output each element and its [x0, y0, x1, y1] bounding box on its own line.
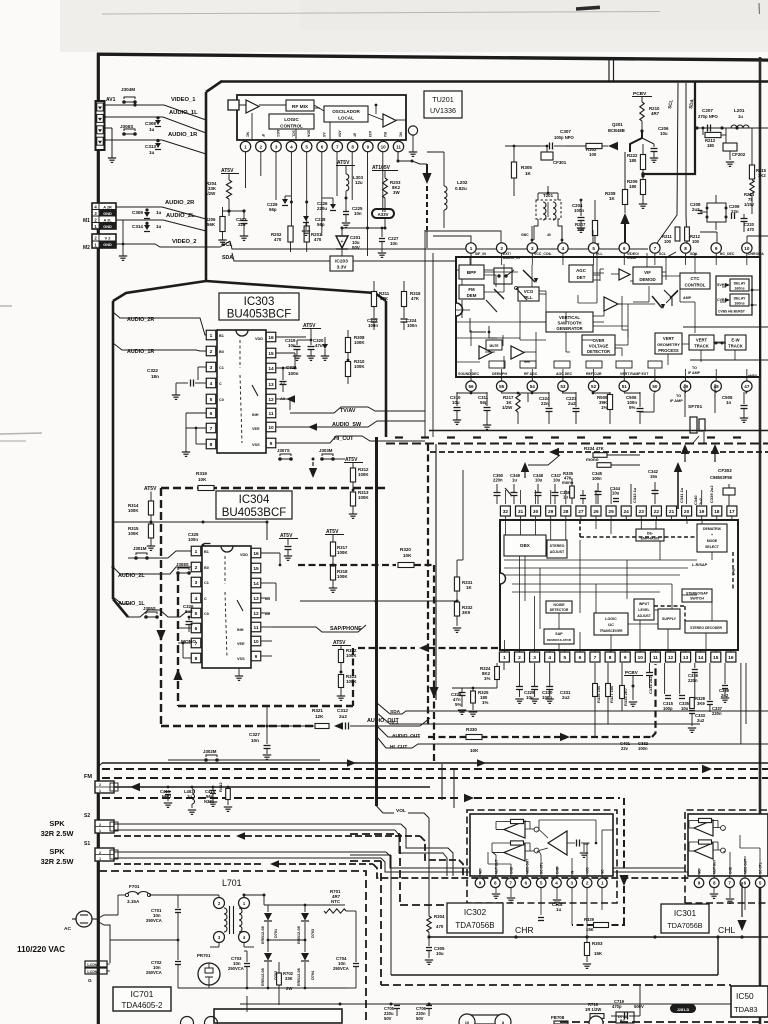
resistor R313: [349, 490, 370, 518]
svg-text:R321: R321: [312, 708, 323, 713]
svg-text:2u2: 2u2: [568, 401, 576, 406]
resistor R315: [128, 522, 155, 550]
capacitor C706: [416, 1004, 432, 1021]
wire y522 under IC304 label: [113, 521, 269, 541]
amp IC302 opamp2: [492, 841, 540, 861]
label VOL: [377, 806, 430, 818]
svg-text:Q201: Q201: [612, 122, 623, 127]
svg-text:3.15A: 3.15A: [127, 899, 140, 904]
shield border top y81: [221, 80, 768, 83]
svg-text:100K: 100K: [354, 340, 365, 345]
svg-text:VSS: VSS: [252, 443, 260, 447]
IC U201 block VIF DEMOD: [633, 267, 662, 284]
capacitor C328: [451, 688, 497, 714]
connector M2: [92, 234, 116, 248]
svg-text:15: 15: [713, 655, 719, 661]
svg-text:VERT RAMP EXT: VERT RAMP EXT: [620, 372, 649, 376]
svg-text:VEE: VEE: [252, 427, 260, 431]
power bottom wires: [187, 988, 345, 1018]
svg-text:18: 18: [714, 509, 720, 515]
capacitor C703: [228, 951, 250, 989]
svg-text:16: 16: [253, 551, 259, 557]
svg-text:100n: 100n: [188, 537, 198, 542]
svg-text:D704: D704: [311, 970, 315, 980]
svg-text:IF: IF: [261, 134, 265, 137]
bus dashed vertical x428: [427, 444, 429, 726]
arrow up pin49 feed: [681, 444, 689, 462]
supply AT5V mid: [336, 160, 355, 166]
svg-text:GND: GND: [510, 866, 514, 874]
thick feed line right: [641, 82, 695, 176]
svg-text:3: 3: [195, 580, 198, 586]
svg-text:13: 13: [683, 655, 689, 661]
svg-text:2u2: 2u2: [562, 695, 570, 700]
svg-text:R412: R412: [218, 782, 223, 792]
svg-text:R305: R305: [521, 165, 532, 170]
label J281-D: [670, 1004, 696, 1013]
svg-text:1/2W: 1/2W: [205, 191, 216, 196]
svg-text:29: 29: [548, 509, 554, 515]
resistor R412: [218, 782, 232, 812]
IC U301 block STEREO/SAP SWITCH: [682, 589, 712, 602]
IC U301 inner wires: [504, 520, 712, 652]
bus dashed R330 y737: [428, 664, 656, 741]
amp IC302 body: [470, 814, 613, 876]
svg-text:DEMODULATOR: DEMODULATOR: [547, 638, 572, 642]
svg-text:R304: R304: [434, 914, 445, 919]
bus SCL vertical: [657, 83, 678, 243]
svg-text:S2: S2: [84, 813, 90, 819]
wire AUDIO_1L: [105, 117, 207, 133]
arrow down x434: [429, 687, 438, 698]
jumper J302M: [113, 749, 320, 762]
svg-text:470: 470: [436, 924, 444, 929]
svg-text:4: 4: [195, 596, 198, 602]
bus SDA vertical: [686, 83, 695, 243]
svg-text:7: 7: [509, 881, 512, 886]
capacitor C325: [188, 522, 211, 547]
IC304 pin names: [204, 550, 271, 661]
capacitor C315: [663, 663, 674, 711]
resistor R316: [401, 281, 421, 316]
IC U201 transistor sketch: [664, 290, 692, 306]
supply AT5V: [221, 168, 239, 180]
svg-text:56: 56: [468, 384, 474, 389]
IC U201 inner wires: [456, 253, 725, 352]
label 110/220 VAC: [17, 945, 65, 954]
svg-text:TO: TO: [692, 366, 697, 370]
jumper J304M: [121, 87, 137, 104]
svg-text:1%: 1%: [484, 676, 490, 681]
svg-text:INPUT: INPUT: [639, 602, 650, 606]
svg-text:10u: 10u: [452, 400, 460, 405]
svg-text:49: 49: [683, 384, 689, 389]
svg-text:100K: 100K: [337, 550, 348, 555]
resistor R302: [566, 142, 618, 157]
svg-text:100n: 100n: [592, 476, 602, 481]
svg-text:5: 5: [592, 246, 595, 251]
arrow up pin21 wire: [674, 462, 682, 509]
svg-text:+: +: [711, 533, 713, 537]
svg-text:J305S: J305S: [143, 606, 156, 611]
svg-text:11: 11: [653, 655, 658, 661]
svg-text:C334 2u2: C334 2u2: [648, 676, 653, 694]
label box IC304: [216, 491, 292, 519]
svg-text:2u2: 2u2: [697, 718, 705, 723]
tuner AGC circle: [408, 126, 417, 156]
tuner RF MIX box: [286, 100, 314, 111]
capacitor C324: [401, 316, 418, 330]
svg-text:2u2: 2u2: [698, 497, 703, 505]
jumper J305S: [143, 606, 159, 619]
svg-text:31: 31: [518, 509, 524, 515]
speaker S2 wires: [114, 824, 453, 876]
svg-text:22: 22: [654, 509, 660, 515]
svg-text:6: 6: [210, 411, 213, 417]
svg-text:14: 14: [698, 655, 704, 661]
IC U201 body: [456, 257, 760, 377]
capacitor C340: [693, 495, 703, 505]
svg-text:INH: INH: [237, 628, 244, 632]
svg-text:52: 52: [591, 384, 597, 389]
wire SAP/PHONE: [272, 625, 366, 632]
svg-text:ERB12-08: ERB12-08: [297, 968, 301, 986]
svg-text:5%: 5%: [629, 405, 635, 410]
resistor R326: [593, 663, 601, 737]
amp IC301 dashed enclosure: [685, 810, 768, 903]
IC U201 bottom pins 56-47: [466, 369, 752, 391]
wire VOL down x429: [428, 818, 430, 916]
svg-text:3.3V: 3.3V: [337, 265, 348, 271]
svg-text:R319: R319: [196, 471, 207, 476]
svg-text:L-R/SAP: L-R/SAP: [692, 563, 708, 567]
dashed return y447 with left arrow: [430, 448, 768, 456]
svg-text:OVER: OVER: [593, 338, 605, 343]
wire SCL run: [222, 241, 648, 249]
arrow down dashed x624: [619, 798, 628, 920]
svg-text:IC302: IC302: [464, 907, 487, 917]
resistor R314: [128, 498, 154, 524]
svg-text:12: 12: [268, 397, 274, 403]
svg-text:56p: 56p: [317, 222, 325, 227]
svg-text:TDA7056B: TDA7056B: [455, 921, 494, 930]
svg-text:3: 3: [275, 144, 278, 149]
arrow up x178: [173, 669, 182, 680]
svg-text:C98503F58: C98503F58: [710, 475, 733, 480]
svg-text:V 2: V 2: [105, 236, 111, 240]
svg-text:8: 8: [684, 246, 687, 251]
capacitor C318: [538, 902, 563, 926]
dashed bus R320: [298, 564, 396, 566]
svg-text:10: 10: [381, 144, 387, 149]
svg-text:AV1: AV1: [106, 97, 116, 103]
svg-text:CONTROL: CONTROL: [280, 124, 303, 129]
amp IC301 pin names: [698, 859, 763, 874]
svg-text:VCC: VCC: [586, 867, 590, 874]
IC U201 top pins 1-10: [466, 243, 752, 265]
svg-text:5: 5: [759, 881, 762, 886]
diode D704 col: [297, 940, 315, 988]
capacitor C206: [650, 126, 669, 162]
svg-text:D703: D703: [311, 929, 315, 938]
capacitor C307: [540, 129, 575, 150]
svg-text:22v: 22v: [621, 746, 629, 751]
svg-text:MUT OUT: MUT OUT: [495, 859, 499, 874]
svg-text:IC303: IC303: [244, 296, 275, 308]
svg-text:50V: 50V: [416, 1016, 424, 1021]
svg-text:1K: 1K: [466, 585, 472, 590]
svg-text:BCB48B: BCB48B: [608, 128, 625, 133]
svg-text:J304M: J304M: [121, 87, 135, 92]
bus dashed y648: [102, 644, 500, 652]
svg-text:10n: 10n: [390, 241, 398, 246]
IC U201 block BPF: [459, 265, 484, 279]
resistor R322: [338, 648, 357, 674]
label S1 margin: [84, 841, 90, 847]
amp IC302 pin grounds: [480, 888, 602, 937]
label AUDIO_2L: [166, 213, 195, 219]
connector M1: [92, 203, 116, 229]
wire AUDIO_SW: [276, 420, 425, 431]
svg-text:21: 21: [669, 509, 675, 515]
IC U201 block VERTICAL SAWTOOTH GENERATOR: [546, 312, 593, 332]
svg-text:R330: R330: [466, 727, 477, 732]
svg-text:SAWTOOTH: SAWTOOTH: [557, 321, 581, 326]
svg-text:IC304: IC304: [239, 494, 270, 506]
outer border top: [97, 54, 768, 60]
svg-text:54: 54: [530, 384, 536, 389]
svg-text:DEEMPH: DEEMPH: [492, 372, 507, 376]
svg-text:56K: 56K: [207, 222, 216, 227]
fan SDA: [377, 703, 768, 715]
resistor R305: [505, 145, 540, 196]
amp IC301 opamp1: [689, 818, 725, 836]
svg-text:6: 6: [623, 246, 626, 251]
IC U201 block VCO PLL: [518, 287, 539, 301]
svg-text:LEVEL: LEVEL: [638, 608, 650, 612]
capacitor C505: [722, 392, 748, 422]
svg-text:1: 1: [210, 333, 213, 339]
svg-text:1u: 1u: [156, 224, 162, 229]
svg-text:1u: 1u: [738, 114, 743, 119]
svg-text:STEREO DECODER: STEREO DECODER: [690, 626, 722, 630]
resistor R222: [627, 144, 646, 178]
svg-text:F701: F701: [129, 884, 140, 889]
svg-text:16: 16: [268, 335, 274, 341]
IC U201 top pin feeds: [425, 226, 768, 243]
svg-text:25: 25: [608, 509, 614, 515]
IC303 vee vss grounds: [182, 413, 276, 462]
svg-text:IF AMP: IF AMP: [688, 371, 701, 375]
arrow up mono: [521, 462, 529, 478]
svg-text:TRACK: TRACK: [728, 344, 743, 349]
IC U201 block VERT TRACK: [689, 335, 714, 350]
label SPK 32R upper: [41, 819, 74, 838]
svg-text:5%: 5%: [455, 702, 461, 707]
IC303 right pins: [266, 332, 276, 448]
svg-text:100K: 100K: [128, 508, 139, 513]
bus double line lower: [386, 443, 768, 445]
svg-text:47K: 47K: [380, 296, 389, 301]
svg-text:J308S: J308S: [176, 562, 189, 567]
IC U301 top pins 32-17: [500, 506, 737, 520]
svg-text:250VCA: 250VCA: [333, 966, 349, 971]
IC U301 block STEREO DECODER: [685, 621, 727, 633]
page top dark dash: [576, 6, 600, 11]
svg-text:BU: BU: [383, 132, 387, 137]
svg-text:100p: 100p: [663, 706, 673, 711]
svg-text:9: 9: [698, 881, 701, 886]
jumper J301M: [128, 546, 191, 560]
svg-text:SCL: SCL: [291, 130, 295, 137]
connector S2: [95, 820, 118, 833]
label box IC303: [219, 293, 299, 321]
svg-text:10: 10: [253, 639, 259, 645]
svg-text:5: 5: [305, 144, 308, 149]
power chip outline bottom: [214, 1009, 342, 1023]
svg-text:8: 8: [351, 144, 354, 149]
resistor R318: [329, 565, 349, 592]
svg-text:50V: 50V: [384, 1016, 392, 1021]
svg-text:6: 6: [579, 655, 582, 661]
IC U301 bottom pins 1-16: [499, 650, 736, 662]
capacitor C323: [367, 316, 378, 330]
svg-text:10: 10: [465, 1020, 470, 1024]
svg-text:220n: 220n: [712, 711, 722, 716]
capacitor C312: [336, 708, 430, 730]
svg-text:100K: 100K: [128, 531, 139, 536]
svg-text:C: C: [219, 382, 222, 386]
svg-text:VOLTAGE: VOLTAGE: [589, 344, 609, 349]
svg-text:1/2W: 1/2W: [502, 405, 513, 410]
capacitor C339: [709, 485, 714, 503]
svg-text:8: 8: [195, 656, 198, 662]
label AC: [64, 926, 71, 932]
svg-text:NTC: NTC: [331, 899, 341, 904]
svg-text:RF AGC: RF AGC: [524, 372, 538, 376]
svg-text:SIF_IN: SIF_IN: [475, 252, 486, 256]
jumper J308S: [176, 562, 191, 575]
svg-text:250VCA: 250VCA: [146, 918, 162, 923]
wire VIDEO_2: [116, 241, 230, 247]
wire TV/AV: [290, 407, 425, 415]
svg-text:CONTROL: CONTROL: [685, 283, 706, 288]
svg-text:J302M: J302M: [203, 749, 217, 754]
svg-text:NC: NC: [246, 132, 250, 137]
svg-text:MUT OUT: MUT OUT: [713, 859, 717, 874]
capacitor C311: [478, 392, 491, 429]
svg-text:DEMOD: DEMOD: [639, 277, 655, 282]
svg-text:8: 8: [494, 881, 497, 886]
shield octagon left side: [112, 301, 115, 599]
svg-text:14: 14: [253, 581, 259, 587]
capacitor C238: [302, 216, 326, 235]
svg-text:9: 9: [624, 655, 627, 661]
svg-text:R329: R329: [584, 917, 595, 922]
arrow FM: [130, 783, 160, 791]
M conn ground: [119, 220, 127, 260]
dashed jog to R329: [572, 906, 624, 932]
svg-text:1%: 1%: [601, 405, 607, 410]
svg-text:CF202: CF202: [732, 152, 746, 157]
tuner OSCILADOR LOCAL box: [324, 106, 368, 122]
svg-text:15K: 15K: [594, 951, 603, 956]
svg-text:MUTE: MUTE: [489, 344, 498, 348]
capacitor C229: [267, 196, 293, 212]
bottom dashed y1022: [560, 1021, 768, 1023]
capacitor C719: [611, 999, 644, 1020]
svg-text:C322: C322: [147, 368, 158, 373]
svg-text:AUDIO_IN: AUDIO_IN: [503, 256, 520, 260]
svg-text:9: 9: [715, 246, 718, 251]
label box IC301: [661, 904, 709, 933]
capacitor C226: [305, 198, 336, 211]
svg-text:24: 24: [624, 509, 630, 515]
components C350 C349: [493, 473, 521, 504]
svg-text:DBX: DBX: [520, 543, 531, 548]
tuner antenna input box: [228, 100, 239, 110]
svg-text:7: 7: [594, 655, 597, 661]
svg-text:HI_CUT: HI_CUT: [334, 436, 354, 442]
IC304 right side wires: [261, 553, 281, 656]
coil L202: [444, 152, 468, 228]
resistor R308: [345, 330, 365, 361]
svg-text:1: 1: [99, 829, 101, 833]
IC304 left pins: [191, 546, 201, 663]
capacitor C322: [147, 367, 206, 399]
svg-text:220u: 220u: [317, 206, 327, 211]
stereo pins wiring top: [505, 490, 701, 504]
svg-text:A 2L: A 2L: [103, 218, 112, 222]
svg-text:COMP: COMP: [627, 256, 638, 260]
tuner pin rotated labels: [246, 129, 403, 137]
label CHR: [515, 925, 534, 935]
svg-text:1u: 1u: [156, 210, 162, 215]
speaker S2 dashed: [114, 832, 463, 876]
IC U201 block FM DEM: [459, 285, 484, 299]
label S2 margin: [84, 813, 90, 819]
svg-text:AGC DEC: AGC DEC: [556, 372, 573, 376]
IC U301 block LOGIC I2C TRANSCEIVER: [594, 613, 628, 635]
svg-text:AGC: AGC: [276, 129, 280, 137]
supply AT5V R322: [332, 640, 351, 650]
svg-text:CHR: CHR: [515, 925, 534, 935]
resistor R304: [427, 914, 445, 937]
svg-text:AMP: AMP: [683, 296, 692, 300]
label AUDIO_OUT left: [367, 718, 399, 724]
mains plug: [72, 911, 97, 927]
svg-text:32R 2.5W: 32R 2.5W: [41, 857, 74, 866]
svg-text:UV1336: UV1336: [430, 106, 456, 115]
svg-text:C339 2u2: C339 2u2: [709, 485, 714, 503]
outer border left: [97, 53, 100, 1024]
capacitor C704: [333, 956, 359, 988]
IC U201 amp triangle 1: [604, 297, 618, 311]
svg-text:16: 16: [728, 655, 734, 661]
IC303 right wires: [276, 353, 300, 443]
svg-text:17: 17: [729, 509, 735, 515]
svg-text:470: 470: [274, 237, 282, 242]
capacitor C345: [592, 471, 603, 504]
IC304 inh wires: [178, 628, 243, 680]
svg-text:100n: 100n: [407, 323, 417, 328]
capacitor C336: [688, 663, 699, 697]
AV1 ground stubs: [103, 116, 116, 163]
svg-text:VERT: VERT: [696, 338, 708, 343]
svg-text:6: 6: [525, 881, 528, 886]
svg-text:1: 1: [601, 881, 604, 886]
bus solid y788: [114, 786, 430, 788]
